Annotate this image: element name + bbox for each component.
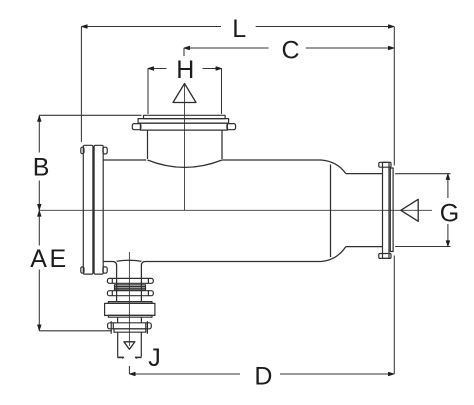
svg-text:H: H xyxy=(176,56,194,84)
svg-text:L: L xyxy=(232,15,246,43)
svg-text:G: G xyxy=(440,199,459,227)
svg-text:A: A xyxy=(30,245,47,273)
svg-text:C: C xyxy=(282,36,300,64)
svg-text:E: E xyxy=(50,245,67,273)
svg-text:D: D xyxy=(254,363,272,391)
svg-text:B: B xyxy=(33,153,50,181)
svg-text:J: J xyxy=(148,344,161,372)
